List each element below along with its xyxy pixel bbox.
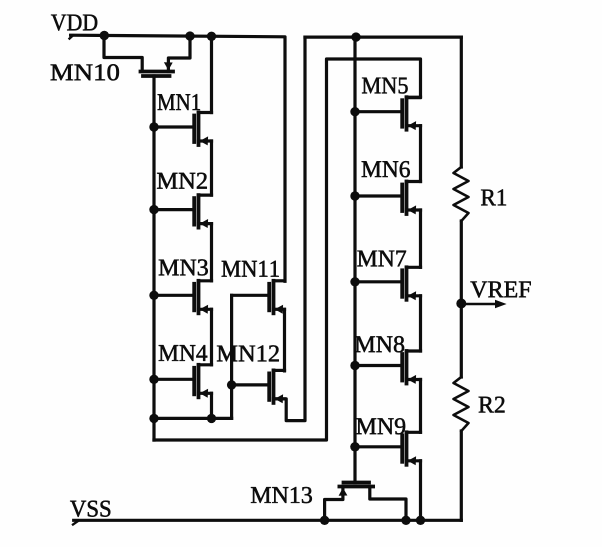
VREF output arrow	[461, 300, 506, 308]
MN6 label	[362, 161, 410, 177]
wire: net A bottom loop up to MN5 drain	[154, 59, 421, 440]
MN7 label	[357, 251, 406, 267]
node: VDD junction for MN10 source	[185, 31, 194, 40]
wire: drain of MN6	[419, 126, 422, 182]
transistor MN13 (MOS capacitor, horizontal)	[339, 483, 374, 496]
MN13 label	[251, 487, 312, 503]
VDD line start tick	[70, 35, 74, 38]
node: VDD junction for MN10 drain	[100, 31, 109, 40]
wire MN10 drain to VDD	[104, 36, 142, 72]
MN4 label	[159, 345, 207, 361]
node: net A junction at MN3 gate	[149, 291, 158, 300]
resistor R1	[454, 167, 469, 221]
MN8 label	[355, 336, 404, 352]
node: MN13 gate junction on net B	[350, 442, 359, 451]
MN12 label	[217, 345, 279, 361]
node: net B junction at MN5 gate	[350, 107, 359, 116]
resistor R2	[454, 377, 469, 431]
wire: net B down right side to R1	[460, 37, 463, 167]
node: net A junction at MN1 gate	[149, 122, 158, 131]
wire: drain of MN1	[210, 36, 213, 112]
wire MN10 source to VDD	[168, 36, 190, 71]
wire: MN13 drain to VSS	[370, 487, 406, 521]
VDD label	[51, 15, 97, 31]
wire: MN11 source to MN12 drain	[283, 309, 286, 371]
node: net B junction at MN9 gate	[350, 442, 359, 451]
wire: net B top bus	[305, 35, 461, 38]
MN1 label	[158, 94, 200, 110]
MN2 label	[157, 173, 207, 189]
wire: gate rail net B (vertical)	[353, 37, 356, 482]
MN10 label	[51, 64, 119, 80]
VREF label	[470, 281, 530, 297]
transistor MN5	[355, 97, 421, 130]
VSS line start tick	[73, 521, 78, 525]
wire: MN13 source to VSS	[325, 487, 343, 521]
VSS label	[70, 501, 110, 517]
R2 label	[479, 397, 505, 413]
node: net A junction on left rail	[149, 414, 158, 423]
MN11 label	[222, 261, 279, 277]
transistor MN11	[232, 281, 285, 314]
wire: gate rail net A (left vertical)	[152, 76, 155, 440]
node: net B junction at MN6 gate	[350, 191, 359, 200]
node: MN9 source at VSS	[416, 516, 425, 525]
MN9 label	[356, 418, 405, 434]
VSS rail wire (bottom)	[74, 519, 462, 522]
wire: drain of MN2	[210, 141, 213, 195]
node: net B junction at MN7 gate	[350, 277, 359, 286]
wire: drain of MN8	[419, 296, 422, 351]
wire: drain of MN3	[210, 224, 213, 281]
wire: MN12 source loop up to net B bus	[274, 37, 306, 421]
node VREF	[456, 299, 466, 309]
wire: MN11/MN12 gate vertical (net A)	[230, 295, 233, 418]
node: net B junction at MN8 gate	[350, 361, 359, 370]
wire: MN9 source down to VSS	[419, 461, 422, 521]
node: net A junction at MN4 gate	[149, 375, 158, 384]
transistor MN12	[232, 370, 285, 403]
wire: drain of MN4	[210, 309, 213, 365]
node: MN12 gate junction	[227, 380, 236, 389]
wire: VREF node to R2	[460, 304, 463, 378]
transistor MN3	[154, 281, 212, 314]
wire: MN4 source down to junction	[210, 393, 213, 418]
node: MN13 source at VSS	[320, 516, 329, 525]
wire: R1 bottom to VREF node	[460, 221, 463, 304]
node: VDD junction for MN1 drain	[207, 32, 216, 41]
transistor MN2	[154, 195, 212, 228]
transistor MN10 (MOS capacitor, horizontal)	[141, 62, 174, 76]
MN5 label	[362, 78, 408, 94]
transistor MN4	[154, 365, 212, 398]
transistor MN6	[355, 182, 421, 215]
node: net B junction to gate rail	[351, 32, 360, 41]
MN3 label	[159, 259, 208, 275]
wire: drain of MN9	[419, 380, 422, 433]
VDD rail wire (top)	[71, 35, 285, 281]
transistor MN8	[355, 351, 421, 384]
node: MN13 drain at VSS	[401, 516, 410, 525]
node: net A junction at MN2 gate	[149, 205, 158, 214]
transistor MN1	[154, 113, 212, 146]
node: MN4 source junction	[207, 414, 216, 423]
R1 label	[481, 189, 506, 205]
wire: net A horizontal to MN12 gate line	[154, 417, 232, 420]
wire: R2 bottom to VSS	[460, 431, 463, 520]
wire: drain of MN7	[419, 210, 422, 267]
transistor MN9	[355, 432, 421, 465]
transistor MN7	[355, 267, 421, 300]
